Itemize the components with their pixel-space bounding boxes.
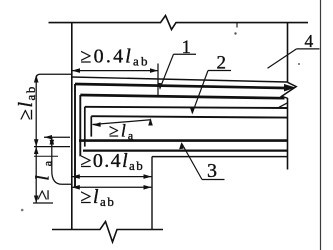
top dimension line (&#8805;0.4lab) [72, 70, 158, 72]
scan specks [234, 32, 236, 34]
top bar 2 [80, 95, 284, 98]
label 2 leader [192, 71, 208, 113]
wall bottom cut line with break symbol [52, 222, 163, 243]
mid dimension line (&#8805;la) [93, 120, 151, 125]
bottom bar B [83, 150, 288, 152]
svg-text:≥lab: ≥lab [15, 85, 38, 120]
opening left edge (wall inner face) [151, 157, 153, 230]
svg-text:2: 2 [217, 53, 227, 74]
top bar 4 hook leg [90, 116, 92, 136]
scan right border line [320, 0, 322, 250]
top dimension right extension line [157, 64, 159, 97]
left dimension line V_a with top bracket [36, 74, 72, 203]
top bar 1 [75, 84, 285, 88]
svg-text:≥0.4lab: ≥0.4lab [81, 46, 150, 69]
svg-text:≥la: ≥la [109, 121, 135, 143]
right cut line (lower) [287, 98, 289, 170]
lower dimension line (&#8805;0.4lab) [72, 176, 152, 178]
bottom dimension line (&#8805;lab) [72, 186, 152, 188]
beam top edge [72, 77, 288, 82]
tick artifact on top line [236, 23, 238, 28]
label 3 leader [182, 144, 202, 180]
top bar 2 hook leg [79, 95, 81, 156]
top bar 3 hook leg [84, 107, 86, 147]
svg-text:4: 4 [305, 31, 314, 51]
top bar 4 [91, 116, 287, 117]
label 1 leader [160, 54, 173, 87]
svg-text:3: 3 [207, 160, 217, 182]
top bar 3 [85, 107, 287, 108]
wall top cut line with break symbol [49, 16, 309, 30]
left inner dimension line V_b with bottom curve [52, 137, 72, 184]
bar1 right break mark [284, 84, 296, 91]
svg-text:≥lab: ≥lab [81, 186, 116, 209]
svg-text:1: 1 [182, 37, 192, 58]
right cut line break zigzag [282, 82, 297, 98]
bar3 right end uptick [279, 103, 288, 108]
wall left edge [71, 23, 73, 230]
svg-text:≥0.4lab: ≥0.4lab [81, 150, 145, 173]
top bar 1 hook leg [74, 84, 76, 187]
bottom bar A [79, 139, 288, 142]
left extension ticks [44, 136, 70, 138]
label 4 leader [268, 49, 297, 68]
right cut line (upper) [287, 23, 289, 83]
beam bottom edge [152, 156, 288, 158]
